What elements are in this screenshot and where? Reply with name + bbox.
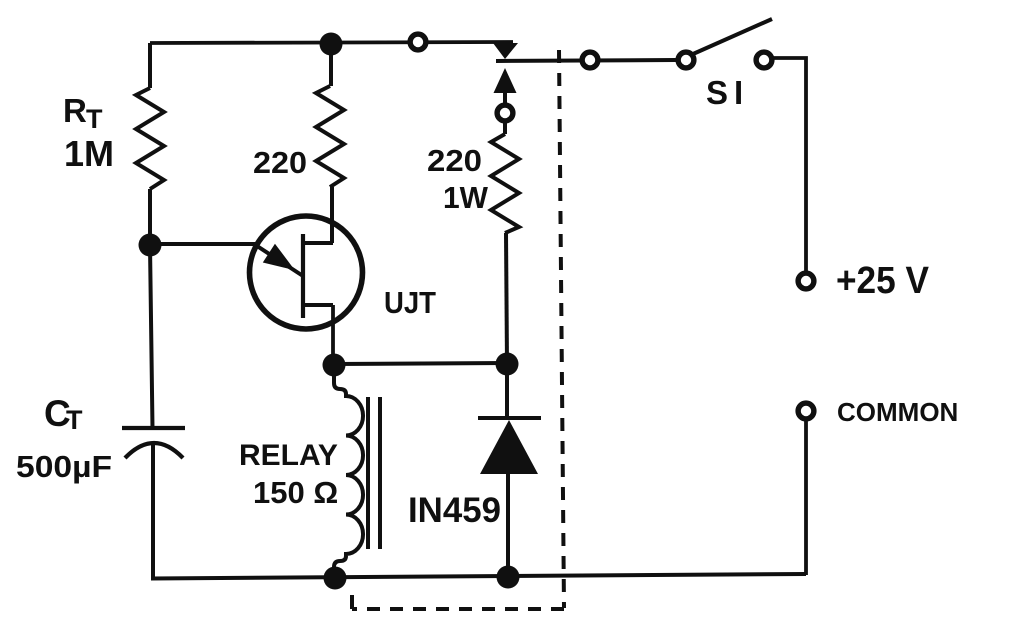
wire B1 to diode top [334,363,507,364]
label RT [63,92,103,134]
label COMMON [837,397,958,427]
svg-text:220: 220 [427,143,482,178]
node diode bottom [497,566,520,589]
wire top horizontal [150,42,513,43]
switch S1 right contact circle [756,52,772,68]
op-amp UJT Q1 circle [250,216,363,329]
connector arrow down [493,43,518,59]
label 500uF [16,449,112,484]
wire common down [804,420,808,575]
resistor RT 1M [136,88,164,189]
connector arrow up [494,68,517,104]
label RELAY [239,439,338,472]
svg-text:IN459: IN459 [408,491,501,530]
dashed module boundary left stub [350,595,354,609]
terminal +25V circle [798,273,814,289]
node top junction 220 [320,33,343,56]
relay K1 coil [334,365,363,578]
svg-text:T: T [66,405,83,435]
switch S1 pivot circle [678,52,694,68]
svg-text:RELAY: RELAY [239,439,338,472]
relay core bars [368,397,380,549]
svg-text:COMMON: COMMON [837,397,958,427]
wire 220 top lead [329,44,333,86]
svg-text:500µF: 500µF [16,449,112,484]
label 1N459 [408,491,501,530]
diode CR1 1N459 [478,364,541,577]
label UJT [384,285,436,320]
svg-text:SI: SI [706,74,749,111]
connector circle on top wire [410,34,426,50]
switch S1 blade [693,19,772,54]
wire resistor bottom lead [506,233,507,364]
node B1 junction [323,354,346,377]
terminal COMMON circle [798,403,814,419]
emitter arrow [264,245,293,269]
wire top right bus [496,60,676,61]
svg-text:UJT: UJT [384,285,436,320]
label S1 [706,74,749,111]
node diode top [496,353,519,376]
node relay bottom [324,567,347,590]
wire bottom horizontal [151,574,806,579]
label 150 ohm [253,475,338,510]
wire left rail lower [151,443,155,579]
svg-text:R: R [63,92,87,129]
node A junction RT/CT/emitter [139,234,162,257]
connector circle left of switch [582,52,598,68]
label 220 1W [427,143,489,215]
dashed module boundary bottom [352,607,564,611]
svg-text:1M: 1M [64,133,114,174]
wire emitter horizontal [150,242,256,246]
svg-text:T: T [86,104,103,134]
svg-text:1W: 1W [443,180,489,215]
resistor R2 220 1W [491,134,519,233]
wire left rail upper [148,43,152,88]
capacitor CT [122,428,185,458]
wire switch to right corner [771,58,806,272]
svg-text:150 Ω: 150 Ω [253,475,338,510]
resistor R1 220 [316,86,344,187]
label +25V [836,260,930,302]
wire base2 lead [330,187,334,243]
dashed module boundary right [559,50,564,608]
label 1M [64,133,114,174]
transistor UJT internals [254,234,333,365]
label CT [44,393,83,435]
wire resistor top lead [503,123,507,134]
test point circle above 220 1W [497,105,513,121]
svg-text:220: 220 [253,145,307,180]
svg-text:+25 V: +25 V [836,260,930,302]
wire left rail middle [150,189,153,428]
label 220 [253,145,307,180]
